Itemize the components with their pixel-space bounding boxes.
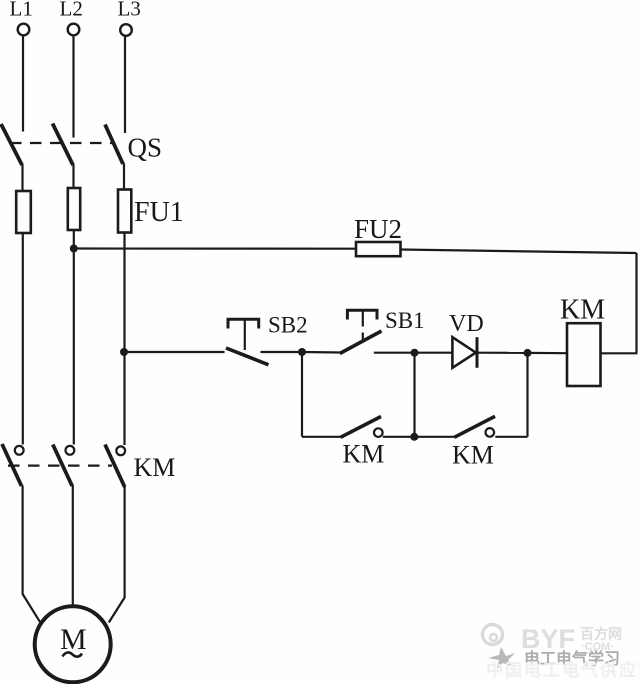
- KM blade pole 3: [105, 445, 125, 488]
- wire to FU2: [74, 247, 356, 249]
- svg-text:中国电工电气供应商: 中国电工电气供应商: [486, 660, 640, 680]
- wire SB1 to node B: [374, 352, 415, 354]
- svg-text:BYF: BYF: [521, 624, 575, 654]
- node: control tap on L2 phase: [70, 245, 78, 253]
- QS blade pole 2: [53, 124, 74, 166]
- svg-text:L3: L3: [118, 0, 141, 21]
- node A: [298, 348, 306, 356]
- wire node A to SB1: [302, 351, 341, 354]
- wire FU1 pole2 to KM contact: [73, 230, 75, 445]
- wire right rail down to coil: [635, 253, 637, 353]
- watermark logo circle: [483, 625, 503, 645]
- KM fixed contact circle pole 2: [66, 446, 75, 455]
- wire L1 to QS: [22, 36, 24, 132]
- svg-text:FU2: FU2: [354, 214, 402, 244]
- wire QS to FU1 pole2: [72, 165, 74, 189]
- SB1 blade: [340, 331, 382, 354]
- svg-text:L1: L1: [10, 0, 33, 21]
- wire FU1 pole3 to KM contact: [123, 233, 125, 446]
- wire node A down: [301, 352, 303, 437]
- disconnect switch QS: [1, 124, 162, 166]
- contactor coil KM: [560, 295, 605, 387]
- svg-text:FU1: FU1: [134, 197, 184, 228]
- watermark star icon: [488, 647, 515, 669]
- wire QS to FU1 pole3: [123, 164, 125, 190]
- QS linkage dashed line: [10, 142, 112, 144]
- svg-text:KM: KM: [343, 440, 385, 469]
- fuse FU1: [16, 188, 184, 233]
- SB1 cap: [347, 310, 377, 319]
- wire control line to SB2: [124, 351, 225, 353]
- terminal L1: [10, 0, 33, 35]
- svg-text:百方网: 百方网: [580, 626, 622, 642]
- FU1 cartridge pole 2: [68, 188, 80, 230]
- SB2 cap: [228, 319, 259, 328]
- pushbutton SB1 (NO start): [340, 308, 425, 354]
- wire VD to node C: [477, 352, 528, 354]
- terminal L3: [118, 0, 141, 36]
- aux contact KM (diode bypass, NO): [452, 416, 495, 469]
- SB1 stem: [362, 310, 364, 326]
- svg-text:M: M: [60, 623, 87, 656]
- pushbutton SB2 (NC stop): [226, 313, 308, 365]
- KM fixed contact circle pole 1: [15, 446, 24, 455]
- svg-text:KM: KM: [560, 295, 605, 326]
- SB2 stem: [244, 319, 246, 350]
- svg-text:SB1: SB1: [385, 308, 425, 333]
- wire node B to VD: [415, 352, 453, 354]
- KM blade pole 2: [53, 445, 72, 487]
- node D: [410, 433, 418, 441]
- wire node C down: [526, 353, 528, 437]
- KM linkage dashed line: [8, 465, 112, 467]
- SB2 blade: [226, 348, 269, 365]
- diode VD: [449, 311, 484, 368]
- wire KM pole3 to motor: [109, 487, 125, 623]
- KM fixed contact circle pole 3: [116, 446, 125, 455]
- aux contact KM (self-hold, NO): [341, 417, 385, 469]
- wire KM pole1 to motor: [23, 486, 41, 623]
- wire L3 to QS: [124, 36, 126, 133]
- wire KM pole2 to motor: [72, 486, 74, 607]
- motor M: [35, 606, 111, 682]
- wire bottom rail right: [495, 436, 527, 438]
- svg-text:KM: KM: [134, 453, 176, 482]
- wire node D to second aux contact: [414, 436, 455, 438]
- svg-text:KM: KM: [452, 441, 494, 470]
- node C: [524, 349, 532, 357]
- QS blade pole 3: [105, 125, 123, 165]
- svg-text:VD: VD: [449, 311, 484, 337]
- FU1 cartridge pole 3: [118, 190, 131, 233]
- KM blade pole 1: [2, 444, 22, 486]
- contactor KM main contacts: [2, 444, 175, 487]
- wire node B down: [413, 353, 415, 437]
- svg-text:SB2: SB2: [268, 313, 308, 338]
- wire to node D: [383, 436, 415, 438]
- wire L2 to QS: [72, 36, 74, 138]
- wire FU1 pole1 to KM contact: [22, 233, 24, 445]
- svg-text:QS: QS: [128, 133, 163, 163]
- wire QS to FU1 pole1: [21, 165, 23, 192]
- wire FU2 to right rail: [401, 250, 637, 254]
- wire node C to coil KM: [528, 352, 568, 355]
- fuse FU2: [354, 214, 402, 256]
- wire SB2 to node A: [261, 351, 303, 353]
- QS blade pole 1: [1, 124, 22, 165]
- node B: [411, 349, 419, 357]
- FU1 cartridge pole 1: [16, 191, 31, 233]
- terminal L2: [60, 0, 83, 35]
- node: control line tap on L3 phase: [120, 348, 128, 356]
- wire coil KM to right rail: [601, 352, 638, 354]
- svg-text:L2: L2: [60, 0, 83, 21]
- wire bottom rail left: [302, 436, 341, 438]
